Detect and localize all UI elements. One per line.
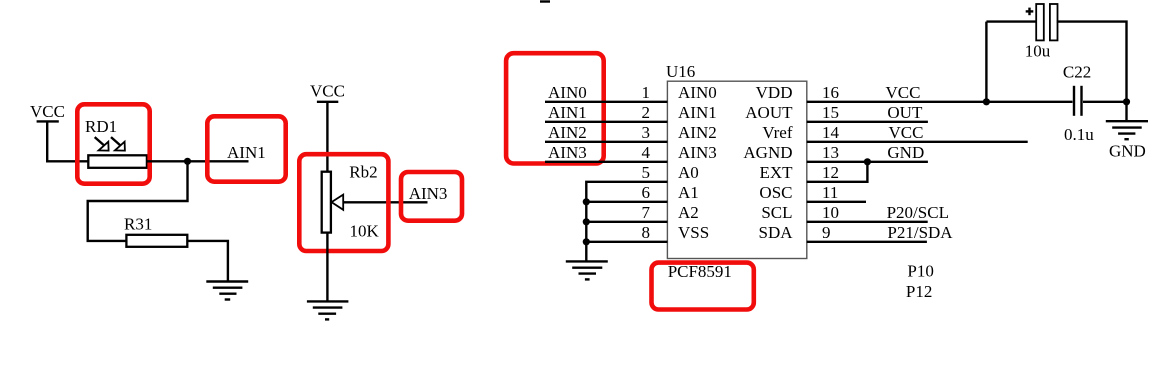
wire	[326, 102, 328, 172]
svg-text:EXT: EXT	[759, 163, 793, 182]
wire pin 2	[545, 121, 667, 123]
wire	[326, 233, 328, 302]
svg-text:16: 16	[822, 83, 839, 102]
svg-text:10K: 10K	[350, 222, 380, 241]
resistor RD1 body	[88, 155, 147, 168]
junction node pin 6	[583, 198, 590, 205]
junction node	[983, 98, 990, 105]
svg-text:3: 3	[641, 123, 650, 142]
wiper arrow of Rb2	[332, 195, 428, 210]
svg-text:P20/SCL: P20/SCL	[887, 203, 949, 222]
svg-text:R31: R31	[124, 215, 152, 234]
svg-text:A1: A1	[678, 183, 699, 202]
light arrow 2 of RD1	[111, 137, 125, 151]
svg-text:10: 10	[822, 203, 839, 222]
ground (A0-A2/VSS bus)	[566, 261, 608, 279]
wire	[88, 161, 188, 241]
junction node	[184, 158, 191, 165]
svg-text:AIN2: AIN2	[678, 123, 717, 142]
junction node pin 8	[583, 238, 590, 245]
svg-text:9: 9	[822, 223, 831, 242]
svg-text:AIN0: AIN0	[678, 83, 717, 102]
light arrow 1 of RD1	[95, 137, 109, 151]
svg-text:OUT: OUT	[887, 103, 923, 122]
red highlight box around AIN3	[401, 172, 462, 221]
svg-text:AIN3: AIN3	[409, 184, 448, 203]
stray mark top center	[540, 0, 550, 2]
wire	[147, 160, 249, 162]
svg-text:AIN3: AIN3	[548, 143, 587, 162]
svg-text:AIN1: AIN1	[227, 143, 266, 162]
wire pin 15	[807, 121, 928, 123]
red highlight box around RD1	[77, 104, 149, 183]
svg-text:RD1: RD1	[85, 117, 117, 136]
svg-text:GND: GND	[1109, 142, 1146, 161]
junction node pin 13/12	[864, 158, 871, 165]
svg-text:OSC: OSC	[759, 183, 792, 202]
svg-text:P12: P12	[906, 282, 932, 301]
svg-text:SCL: SCL	[761, 203, 792, 222]
svg-text:VSS: VSS	[678, 223, 709, 242]
capacitor 10u plate 2	[1050, 4, 1058, 40]
wire	[1083, 101, 1127, 103]
wire riser to 10u cap	[985, 22, 987, 102]
resistor R31 body	[126, 235, 187, 247]
svg-text:GND: GND	[887, 143, 924, 162]
wire pin 12	[807, 162, 868, 182]
svg-text:AIN1: AIN1	[548, 103, 587, 122]
capacitor 10u plate 1	[1036, 4, 1044, 40]
svg-text:P21/SDA: P21/SDA	[887, 223, 953, 242]
svg-text:A0: A0	[678, 163, 699, 182]
junction node	[1123, 98, 1130, 105]
svg-text:8: 8	[641, 223, 650, 242]
wire pin 9	[807, 241, 927, 243]
VCC power bar (middle)	[317, 101, 338, 103]
op-amp U16 PCF8591 IC body	[667, 81, 806, 258]
wire pin 6	[586, 201, 667, 203]
red highlight box around PCF8591	[652, 263, 754, 310]
svg-text:AIN2: AIN2	[548, 123, 587, 142]
wire	[1125, 102, 1127, 121]
wire pin 5	[586, 182, 667, 262]
ground (under R31)	[206, 282, 248, 300]
svg-text:AOUT: AOUT	[745, 103, 793, 122]
svg-text:VCC: VCC	[886, 83, 921, 102]
red highlight box around AIN0-AIN3	[506, 53, 604, 163]
wire	[1057, 22, 1127, 102]
svg-text:7: 7	[641, 203, 650, 222]
svg-text:C22: C22	[1063, 63, 1091, 82]
wire pin 8	[586, 241, 667, 243]
svg-text:VCC: VCC	[30, 102, 65, 121]
capacitor C22 plate 1	[1073, 86, 1075, 116]
svg-text:12: 12	[822, 163, 839, 182]
svg-text:14: 14	[822, 123, 840, 142]
wire pin 13	[807, 161, 928, 163]
svg-text:0.1u: 0.1u	[1064, 125, 1094, 144]
junction node pin 7	[583, 218, 590, 225]
svg-text:VCC: VCC	[310, 82, 345, 101]
wire pin 1	[545, 101, 667, 103]
wire pin 10	[807, 221, 928, 223]
wire pin 16	[807, 101, 1073, 103]
capacitor 10u plus sign	[1026, 8, 1034, 16]
potentiometer Rb2 body	[322, 172, 331, 233]
svg-text:13: 13	[822, 143, 839, 162]
svg-text:VCC: VCC	[889, 123, 924, 142]
svg-text:U16: U16	[666, 62, 695, 81]
svg-text:2: 2	[641, 103, 650, 122]
ground (under Rb2)	[307, 301, 349, 319]
wire pin 11	[807, 201, 866, 203]
svg-text:AIN1: AIN1	[678, 103, 717, 122]
red highlight box around AIN1	[207, 116, 285, 181]
svg-text:4: 4	[641, 143, 650, 162]
wire pin 14	[807, 141, 1028, 143]
svg-text:P10: P10	[907, 262, 933, 281]
ground (right)	[1106, 121, 1148, 139]
svg-text:Rb2: Rb2	[349, 163, 377, 182]
wire	[187, 241, 228, 282]
svg-text:5: 5	[641, 163, 650, 182]
wire	[47, 121, 88, 161]
wire pin 7	[586, 221, 667, 223]
svg-text:AGND: AGND	[743, 143, 792, 162]
svg-text:A2: A2	[678, 203, 699, 222]
svg-text:VDD: VDD	[756, 83, 793, 102]
svg-text:Vref: Vref	[762, 123, 792, 142]
svg-text:10u: 10u	[1025, 41, 1051, 60]
wire	[986, 20, 1036, 22]
svg-text:11: 11	[822, 183, 838, 202]
svg-text:15: 15	[822, 103, 839, 122]
wire pin 4	[545, 161, 667, 163]
svg-text:SDA: SDA	[758, 223, 793, 242]
svg-text:1: 1	[641, 83, 650, 102]
VCC power bar (left)	[37, 120, 59, 122]
svg-text:AIN0: AIN0	[548, 83, 587, 102]
capacitor C22 plate 2	[1080, 86, 1082, 116]
svg-text:6: 6	[641, 183, 650, 202]
svg-text:AIN3: AIN3	[678, 143, 717, 162]
red highlight box around Rb2	[299, 154, 388, 251]
wire pin 3	[545, 141, 667, 143]
